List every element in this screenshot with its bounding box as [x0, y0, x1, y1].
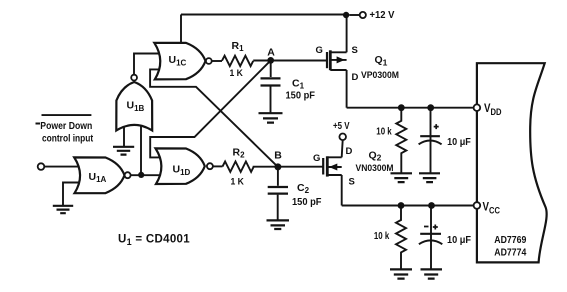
svg-text:G: G [313, 153, 320, 164]
resistor R1 [222, 56, 253, 66]
wire U1D output to R2 [213, 165, 223, 167]
svg-text:control input: control input [42, 134, 94, 145]
ground 10uF lower [421, 269, 443, 278]
wire U1C output to R1 [212, 60, 222, 62]
ground 10k upper [391, 173, 413, 182]
bubble U1B [131, 75, 137, 81]
junction VCC line at 10uF [428, 202, 435, 209]
logic gate U1B (NOR, pointing up) [116, 82, 152, 131]
wire R2 to node B to Q2 gate [253, 166, 323, 168]
svg-text:AD7774: AD7774 [494, 247, 526, 259]
resistor 10k lower [396, 206, 406, 270]
wire R1 to node A to Q1 gate [253, 60, 326, 62]
svg-text:VN0300M: VN0300M [356, 163, 394, 174]
node A junction [267, 57, 274, 64]
svg-text:150 pF: 150 pF [286, 90, 316, 101]
junction U1A output node [138, 172, 144, 178]
wire power-down terminal to U1A upper input [44, 166, 88, 168]
wire Q1 source to +12V rail [346, 15, 348, 52]
terminal power-down input [38, 163, 45, 170]
capacitor C2 [277, 167, 279, 186]
capacitor 10uF upper (polarized) [430, 108, 432, 174]
junction VDD line at 10uF [427, 104, 434, 111]
wire top rail from U1C to +12V [181, 15, 346, 45]
svg-text:A: A [267, 46, 275, 58]
svg-text:S: S [349, 177, 355, 188]
transistor Q1 (P-MOSFET VP0300M) [327, 50, 347, 70]
svg-text:D: D [346, 146, 353, 157]
ground C1 [259, 113, 283, 122]
resistor R2 [223, 162, 254, 172]
wire +5V terminal to Q2 drain [342, 140, 343, 157]
svg-text:S: S [352, 45, 358, 56]
svg-text:+5 V: +5 V [333, 121, 350, 132]
terminal +12V [360, 12, 366, 18]
svg-text:10 μF: 10 μF [447, 235, 471, 246]
wire U1A output row to U1D lower input [131, 174, 160, 176]
svg-text:+12 V: +12 V [370, 9, 395, 21]
svg-text:G: G [316, 45, 323, 56]
wire VDD line to chip [347, 107, 474, 109]
wire Q2 source down to VCC line [341, 175, 343, 206]
ground 10k lower [390, 269, 412, 278]
wire Q1 drain down to VDD line [346, 70, 348, 108]
ground 10uF upper [419, 173, 440, 182]
svg-text:AD7769: AD7769 [494, 234, 526, 246]
label Power Down with overline [36, 115, 92, 123]
svg-text:1 K: 1 K [230, 68, 244, 79]
terminal +5V [339, 134, 346, 141]
terminal VDD on chip [474, 104, 481, 111]
node B junction [274, 163, 281, 170]
wire U1C hook feedback diagonal to node B [150, 69, 278, 166]
junction VDD line at 10k [398, 104, 405, 111]
wire VCC line to chip [342, 205, 474, 207]
wire U1A lower input to ground [63, 183, 88, 206]
wire U1B output to U1C upper input [134, 54, 160, 77]
wire node A feedback diagonal to U1D hook [150, 60, 271, 157]
svg-text:D: D [352, 72, 359, 83]
bubble U1C [206, 58, 212, 64]
logic gate U1D (NOR) [156, 148, 205, 184]
capacitor C1 [270, 60, 272, 77]
IC AD7769/AD7774 outline [477, 63, 547, 262]
terminal VCC on chip [474, 202, 481, 209]
bubble U1D [207, 163, 213, 169]
svg-text:10 μF: 10 μF [447, 137, 471, 148]
wire U1B right input down to U1A output node [140, 126, 142, 175]
svg-text:10 k: 10 k [376, 127, 392, 138]
bubble U1A [125, 172, 131, 178]
ground U1B input [113, 147, 134, 155]
svg-text:150 pF: 150 pF [292, 197, 322, 208]
svg-text:Power Down: Power Down [40, 121, 92, 132]
wire U1B left input to ground [123, 127, 125, 147]
junction VCC line at 10k [398, 202, 405, 209]
ground C2 [267, 220, 290, 229]
svg-text:B: B [274, 150, 282, 162]
svg-text:1 K: 1 K [231, 176, 245, 187]
ground U1A input [53, 206, 73, 213]
svg-text:10 k: 10 k [374, 231, 390, 242]
capacitor 10uF lower (polarized) [430, 206, 432, 270]
resistor 10k upper [396, 108, 406, 174]
logic gate U1A (NOR) [74, 157, 124, 193]
logic gate U1C (NOR) [154, 43, 205, 80]
junction dot top rail [343, 12, 349, 18]
svg-text:VP0300M: VP0300M [361, 70, 399, 81]
transistor Q2 (N-MOSFET VN0300M) [323, 156, 342, 176]
